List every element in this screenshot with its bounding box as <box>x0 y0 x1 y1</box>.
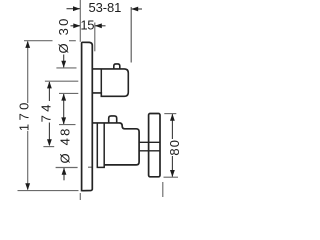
svg-text:170: 170 <box>17 99 32 131</box>
stem spindle lower line <box>139 150 160 152</box>
lower nub <box>109 116 117 123</box>
node arrow 53-81 right <box>131 7 138 12</box>
lower valve body <box>104 123 139 165</box>
node arrow 15 right <box>95 23 102 28</box>
wire stray centerline bottom right <box>162 182 164 197</box>
wire ext line plate face bottom <box>79 193 81 200</box>
svg-text:74: 74 <box>39 101 54 122</box>
wire ext line plate face top <box>79 0 81 42</box>
wire dim 15 tail left <box>71 25 81 27</box>
wire ext 80 top <box>164 113 176 115</box>
wire dim 74 line <box>48 82 50 101</box>
wire ext dia48 top <box>59 124 76 126</box>
wire dia30 upper arrow shaft <box>63 55 65 68</box>
wire dim 80 line <box>171 114 173 139</box>
wire ext 80 bottom <box>164 176 179 178</box>
node arrow 74 bottom <box>47 139 52 146</box>
node arrow 74 top <box>47 81 52 88</box>
wire ext line x131 <box>130 7 132 63</box>
wire ext dia48 bottom tick <box>88 166 92 168</box>
wire ext 74 bottom tick <box>43 146 54 148</box>
svg-text:Ø 48: Ø 48 <box>58 127 73 164</box>
wire dim 53-81 tail right <box>131 8 142 10</box>
node arrow 80 top <box>170 114 175 121</box>
node arrow 170 bottom <box>25 183 30 190</box>
wire dia30/dia48 shared shaft <box>63 94 65 124</box>
node arrow 80 bottom <box>170 170 175 177</box>
wire ext dia30 top <box>56 67 76 69</box>
wire dim 170 line <box>27 42 29 104</box>
node arrow dia48 top <box>61 117 66 124</box>
node arrow 170 top <box>25 41 30 48</box>
lower flange left edge <box>96 123 98 167</box>
node arrow 15 left <box>73 23 80 28</box>
wire dim 53-81 tail left <box>67 8 81 10</box>
node arrow dia30 top <box>61 61 66 68</box>
handle bar <box>149 114 160 177</box>
upper valve divider line <box>100 69 102 93</box>
sleeve upper valve outline <box>93 69 128 96</box>
wire dia48 lower arrow shaft <box>63 168 65 180</box>
upper nub screw <box>114 64 120 69</box>
stem spindle upper line <box>139 141 160 143</box>
wire ext dia48 bottom <box>56 167 78 169</box>
node arrow 53-81 left <box>73 6 80 11</box>
wire ext 170 top <box>24 40 53 42</box>
wire ext 170 bottom <box>18 190 79 192</box>
lower valve top edge <box>93 122 120 124</box>
node arrow dia30 bottom <box>61 94 66 101</box>
wire ext dia30 bottom <box>59 92 78 94</box>
wire dim 15 tail right <box>95 25 106 27</box>
wire ext line x94.8 <box>94 23 96 52</box>
svg-text:53-81: 53-81 <box>89 0 122 15</box>
svg-text:Ø 30: Ø 30 <box>56 17 71 54</box>
wire ext 74 top centerline <box>45 80 78 82</box>
svg-text:15: 15 <box>80 17 94 32</box>
node arrow dia48 bottom <box>62 168 67 175</box>
svg-text:80: 80 <box>167 139 182 156</box>
lower flange bottom edge <box>97 166 105 168</box>
wall plate escutcheon <box>82 42 93 190</box>
lower flange right edge <box>103 123 105 167</box>
wire ext 170 top right segment <box>69 40 76 42</box>
